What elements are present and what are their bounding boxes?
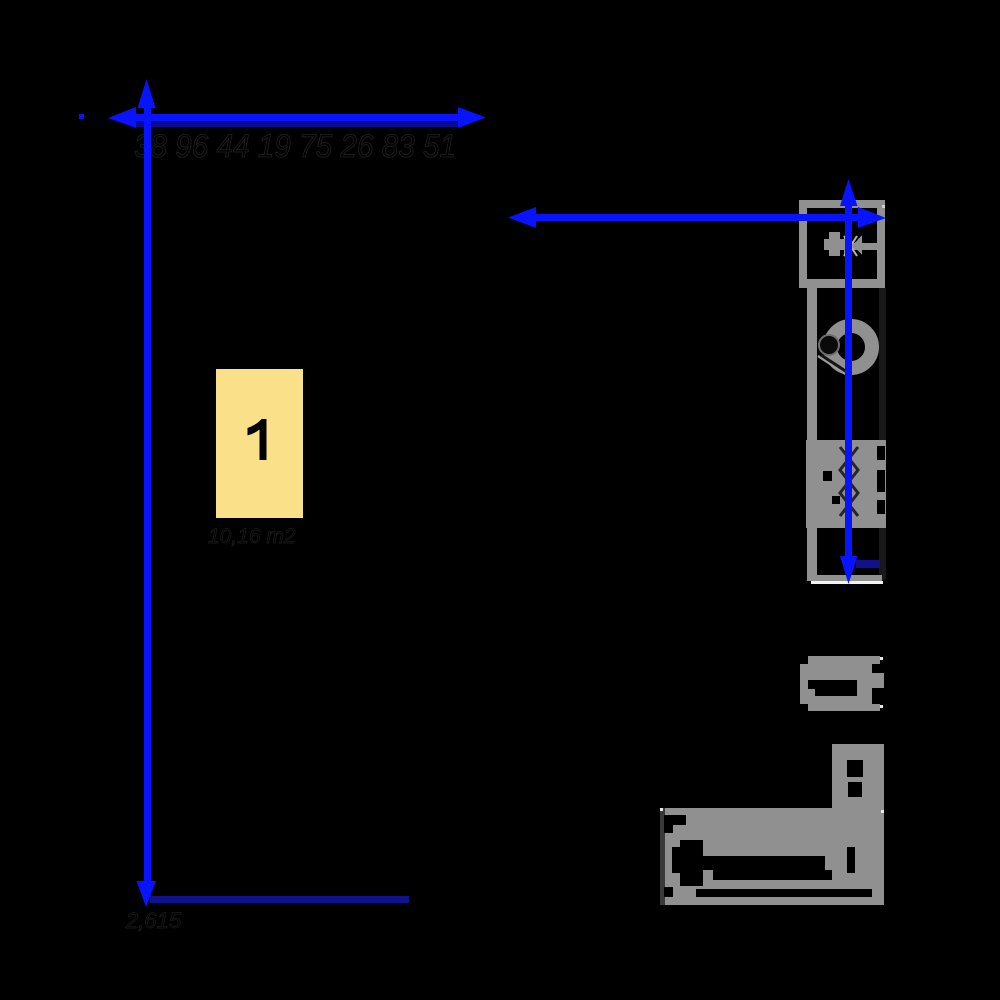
duct cross lattice (840, 447, 858, 516)
room label box 1 (216, 369, 303, 518)
duct notch 1 (823, 471, 832, 481)
hatched duct block (806, 440, 886, 528)
navy line bottom (150, 896, 409, 903)
white underline segments (811, 581, 883, 584)
arrowhead H1 left (108, 107, 136, 128)
tap dark circle (819, 335, 839, 355)
duct right edge gaps (877, 446, 885, 460)
bathtub white dots (660, 808, 663, 811)
wall bottom bar of upper right box (799, 279, 885, 288)
valve symbol bowtie (844, 235, 853, 255)
dim line V2 (845, 200, 852, 560)
wall top bar of upper right box (799, 200, 885, 208)
shaft left wall (807, 288, 817, 580)
sink unit above tub (832, 744, 884, 811)
svg-text:2,615: 2,615 (125, 908, 182, 933)
navy bar near right arrow bottom (856, 560, 880, 568)
tap diagonal (818, 356, 847, 375)
valve symbol vertical stub (829, 232, 840, 256)
wall left of upper right box (799, 200, 807, 288)
shaft bottom bar (807, 575, 882, 581)
bathtub dark left edge (660, 808, 665, 905)
fixture B white dots (880, 657, 883, 660)
dim line H2 (532, 214, 862, 221)
room label digit 1 (248, 419, 267, 460)
dim line H1 dark fringe (136, 121, 462, 127)
fixture B right notches (872, 664, 884, 673)
shaft right dark wall (879, 288, 886, 580)
bathtub basin black shapes (664, 815, 686, 825)
washbasin circle (830, 326, 872, 368)
arrowhead H2 left (508, 207, 536, 228)
fixture B corner cuts (800, 656, 808, 664)
arrowhead H2 right (858, 207, 886, 228)
dim line V1 (144, 95, 151, 893)
dim line H1 left dot (79, 114, 84, 119)
fixture B inner hole (808, 680, 857, 689)
arrowhead H1 right (458, 107, 486, 128)
bathtub body (665, 808, 884, 905)
small fixture B body (800, 656, 884, 711)
arrowhead V2 down (840, 556, 858, 584)
svg-text:10,16 m2: 10,16 m2 (208, 525, 296, 548)
white speck on top bar (882, 205, 885, 208)
arrowhead V2 up (840, 179, 858, 206)
duct notch 2 (832, 496, 840, 504)
sink unit black marks (847, 760, 863, 777)
arrowhead V1 up (138, 79, 156, 108)
dim line H1 (132, 114, 462, 121)
wall right of upper right box (877, 200, 885, 288)
valve symbol horizontal pipe (824, 239, 844, 250)
arrowhead V1 down (137, 881, 157, 907)
svg-text:38 96 44 19 75 26 83 51: 38 96 44 19 75 26 83 51 (134, 128, 456, 164)
